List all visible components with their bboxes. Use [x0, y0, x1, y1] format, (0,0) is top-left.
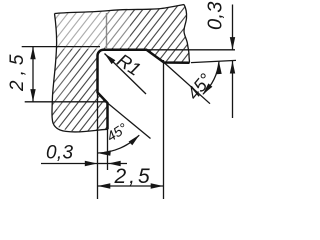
svg-text:45°: 45°	[183, 70, 216, 104]
leader: R1	[105, 54, 147, 95]
break line top (freehand)	[55, 5, 185, 14]
dimension: bottom 45 degrees (chamfer)	[98, 93, 151, 200]
svg-text:2,5: 2,5	[114, 165, 153, 188]
break line left-bottom (freehand)	[52, 14, 108, 132]
dimension: right 45 degrees	[164, 62, 219, 104]
dimension: top right 0,3	[147, 5, 237, 119]
part outline: face, flank, groove bottom, fillet R1, wall, chamfer, face	[98, 50, 190, 130]
break line right (freehand)	[184, 5, 190, 63]
svg-text:R1: R1	[113, 49, 144, 79]
svg-text:0,3: 0,3	[46, 143, 73, 164]
svg-text:0,3: 0,3	[205, 1, 227, 30]
scan fade on left part of hatch	[52, 6, 103, 49]
dimension: left 2,5	[22, 47, 108, 102]
dimension: bottom 0,3	[41, 163, 127, 165]
scan streak at x~106	[106, 13, 108, 48]
dimension: bottom 2,5	[98, 60, 164, 199]
svg-text:2,5: 2,5	[7, 50, 28, 92]
